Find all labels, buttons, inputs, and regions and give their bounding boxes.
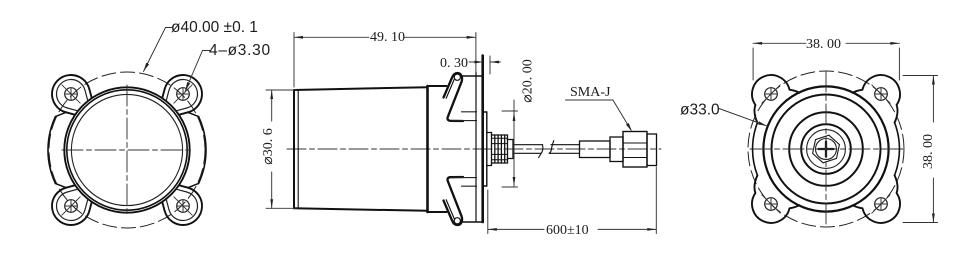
front view ear top-left lobe bbox=[52, 75, 92, 117]
front view ear bottom-left inner contour bbox=[56, 189, 87, 220]
front view horizontal centerline bbox=[62, 149, 192, 151]
side view body bottom edge bbox=[428, 211, 447, 213]
svg-text:4–ø3.30: 4–ø3.30 bbox=[209, 42, 271, 59]
side view body top edge bbox=[428, 85, 447, 87]
front view hole bottom-right center mark bbox=[174, 197, 192, 215]
back view hole top-left bbox=[765, 88, 778, 101]
back view big circle d33 bbox=[763, 86, 888, 211]
back view lobe bottom-right bbox=[853, 175, 900, 223]
back view circle r19.4 bbox=[807, 130, 846, 169]
front view hole top-right center mark bbox=[174, 85, 192, 103]
side view barrel bottom edge bbox=[294, 208, 428, 211]
svg-text:SMA-J: SMA-J bbox=[570, 85, 611, 100]
front view barrel second circle bbox=[67, 90, 187, 210]
front view right side arc bbox=[199, 117, 206, 184]
svg-text:⌀30. 6: ⌀30. 6 bbox=[261, 128, 276, 164]
front view ear top-left inner contour bbox=[56, 79, 87, 110]
front view ear top-right inner contour bbox=[166, 79, 197, 110]
back view centerlines bbox=[750, 148, 903, 150]
side view SMA end bbox=[647, 134, 657, 166]
front view hole bottom-left center mark bbox=[62, 197, 80, 215]
side view SMA nut bbox=[623, 132, 647, 168]
back view lobe top-left bbox=[752, 75, 799, 123]
back view hole top-right bbox=[875, 88, 888, 101]
back view circle r36.8 bbox=[789, 112, 863, 186]
side view top ear wing bbox=[444, 73, 464, 121]
back view circle r10.5 bbox=[816, 139, 837, 160]
front view ear top-right lobe bbox=[162, 75, 202, 117]
back view circle r54.5 bbox=[772, 95, 881, 204]
svg-text:0. 30: 0. 30 bbox=[440, 56, 468, 71]
svg-text:38. 00: 38. 00 bbox=[806, 37, 841, 52]
side view body step bbox=[426, 86, 429, 212]
svg-text:ø33.0: ø33.0 bbox=[680, 102, 720, 119]
dimension 0.30 bbox=[469, 56, 501, 74]
back view circle r24.8 bbox=[801, 124, 851, 174]
dimension diameter 20.00 bbox=[502, 100, 518, 187]
svg-text:38. 00: 38. 00 bbox=[921, 134, 936, 169]
side view cable segment 2 bbox=[551, 144, 580, 146]
front view vertical centerline bbox=[126, 85, 128, 215]
front view hole top-right bbox=[177, 88, 190, 101]
side view centerline bbox=[287, 148, 661, 150]
side view connector stub bbox=[487, 133, 513, 166]
front view barrel outer circle bbox=[64, 87, 189, 212]
svg-text:600±10: 600±10 bbox=[546, 223, 589, 238]
dimension 49.10 bbox=[294, 33, 476, 88]
dimension 600 +/- 10 bbox=[488, 167, 657, 234]
side view barrel top edge bbox=[294, 87, 428, 90]
side view boss face bbox=[483, 112, 487, 186]
leader 4x diameter 3.30 bbox=[185, 51, 210, 92]
side view back plate bbox=[461, 56, 483, 223]
front view ear bottom-right lobe bbox=[162, 183, 202, 225]
back view lobe top-right bbox=[853, 75, 900, 123]
svg-text:⌀20. 00: ⌀20. 00 bbox=[521, 59, 536, 102]
side view barrel front inner edge bbox=[297, 90, 299, 208]
back view center cross bbox=[819, 142, 834, 157]
front view hole top-left center mark bbox=[62, 85, 80, 103]
back view lobe bottom-left bbox=[752, 175, 799, 223]
side view flange step lines top bbox=[452, 112, 477, 186]
dimension 38.00 right bbox=[903, 76, 938, 223]
front view hole bottom-right bbox=[177, 200, 190, 213]
side view SMA crimp sleeve bbox=[580, 141, 611, 158]
back view hole bottom-left bbox=[765, 198, 778, 211]
side view bottom ear wing bbox=[444, 177, 464, 225]
front view left side arc bbox=[48, 117, 55, 184]
front view hole top-left bbox=[65, 88, 78, 101]
front view barrel inner circle bbox=[71, 94, 182, 205]
back view hex nut bbox=[811, 133, 841, 166]
dimension 38.00 top bbox=[753, 43, 899, 80]
front view ear bottom-left lobe bbox=[52, 183, 92, 225]
back view bolt circle dashed bbox=[748, 71, 904, 227]
back view hole bottom-right bbox=[875, 198, 888, 211]
front view hole bottom-left bbox=[65, 200, 78, 213]
dimension 30.6 bbox=[266, 90, 297, 208]
cable break marks bbox=[539, 145, 543, 158]
back view left side arc bbox=[753, 123, 758, 176]
side view cable segment 1 bbox=[513, 141, 580, 158]
svg-text:49. 10: 49. 10 bbox=[370, 30, 405, 45]
side view SMA mid section bbox=[610, 137, 623, 162]
front view bolt circle (dashed) bbox=[49, 72, 205, 228]
svg-text:ø40.00 ±0. 1: ø40.00 ±0. 1 bbox=[171, 19, 258, 36]
leader diameter 40 bbox=[144, 28, 173, 72]
front view ear bottom-right inner contour bbox=[166, 189, 197, 220]
back view right side arc bbox=[895, 123, 900, 176]
side view barrel front face bbox=[293, 90, 295, 208]
